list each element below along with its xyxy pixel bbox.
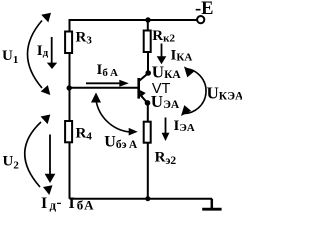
arrowhead Ukea top (up-left): [181, 64, 195, 78]
arrowhead Ubea top (up): [91, 93, 101, 103]
arc Ukea (collector-emitter voltage): [182, 69, 206, 114]
svg-text:Rэ2: Rэ2: [155, 150, 177, 168]
arrowhead Ubea right (right): [129, 128, 138, 136]
arc U2 (left, across R4): [25, 122, 41, 187]
svg-text:Iд: Iд: [37, 43, 49, 59]
collector lead: [139, 73, 148, 80]
transistor VT: [137, 73, 148, 103]
svg-text:UКА: UКА: [152, 62, 182, 81]
svg-text:U1: U1: [2, 48, 18, 66]
svg-text:д: д: [50, 198, 57, 213]
resistor R4: [65, 121, 72, 142]
arrowhead U1 top (up-right): [41, 9, 54, 22]
wire middle horizontal base wire: [70, 87, 138, 89]
arrowhead Ukea bottom (down-left): [178, 105, 192, 119]
svg-text:Iб А: Iб А: [97, 62, 119, 79]
svg-text:U2: U2: [3, 154, 20, 172]
arrowhead U2 bottom (down): [43, 185, 54, 196]
arrow Id-Iba down (long): [45, 135, 56, 184]
arrowhead U2 top (up-right): [41, 111, 54, 124]
ground: [202, 199, 221, 210]
svg-text:IКА: IКА: [171, 47, 193, 63]
wire top horizontal from left rail to -E terminal: [70, 19, 198, 21]
svg-text:R3: R3: [76, 30, 93, 47]
svg-text:R4: R4: [76, 126, 93, 143]
wire right rail upper (to Rk2): [147, 20, 149, 31]
svg-text:Uбэ А: Uбэ А: [104, 133, 138, 151]
arc U1 (left, across R3): [28, 21, 43, 89]
arrowhead U1 bottom (down-right): [41, 85, 54, 98]
svg-text:Rк2: Rк2: [152, 28, 175, 45]
arrow Ika down: [157, 44, 167, 65]
arc Ubea (base-emitter voltage): [96, 100, 130, 132]
emitter arrow (PNP, pointing into base): [137, 88, 146, 97]
wire Rk2 to collector: [147, 52, 149, 73]
emitter lead: [140, 94, 148, 103]
svg-text:UКЭА: UКЭА: [207, 84, 243, 103]
terminal -E circle: [197, 16, 204, 23]
resistor Re2: [144, 122, 151, 143]
wire bottom horizontal: [70, 198, 213, 200]
arrow Iba right (base current): [86, 80, 129, 87]
svg-text:I: I: [69, 195, 75, 212]
resistor Rk2: [144, 31, 151, 53]
wire Re2 to bottom: [147, 143, 149, 199]
svg-text:бА: бА: [77, 198, 95, 213]
node junction dot bottom-right: [145, 196, 150, 201]
arrow Iea down: [162, 118, 170, 142]
node collector dot: [145, 70, 151, 76]
node junction dot top-right: [145, 17, 150, 22]
node emitter dot: [145, 100, 151, 106]
resistor R3: [65, 32, 72, 54]
svg-text:I: I: [41, 195, 47, 212]
node junction dot middle-left: [67, 85, 72, 90]
arrow Id down: [47, 37, 57, 69]
svg-text:IЭА: IЭА: [174, 118, 195, 134]
wire left rail vertical: [69, 19, 71, 199]
wire emitter to Re2: [147, 103, 149, 122]
svg-text:-E: -E: [195, 0, 214, 19]
svg-text:-: -: [57, 195, 62, 211]
base bar: [137, 78, 140, 99]
